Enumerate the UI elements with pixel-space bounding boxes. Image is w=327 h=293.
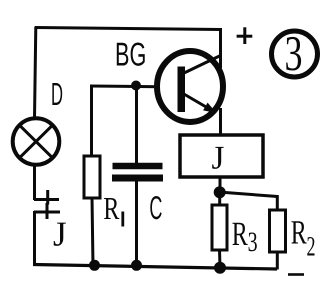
resistor R3 — [212, 205, 227, 250]
svg-text:J: J — [53, 215, 67, 254]
node bottom R3 — [214, 262, 226, 274]
node bottom R1 — [89, 260, 100, 271]
wire R2 to bottom — [276, 252, 279, 270]
transistor BG — [157, 51, 223, 122]
wire coil to node — [219, 177, 222, 193]
minus sign — [288, 273, 304, 276]
resistor R2 — [270, 210, 286, 252]
wire node to R2 branch — [222, 192, 278, 196]
svg-text:2: 2 — [307, 232, 316, 263]
wire bottom rail — [33, 265, 277, 270]
wire contact to bottom rail — [33, 211, 36, 266]
wire R1 to bottom — [92, 197, 93, 266]
lamp D — [13, 118, 60, 165]
wire R2 drop — [276, 195, 279, 211]
wire node to R3 — [218, 192, 221, 206]
wire lamp to contact — [33, 164, 36, 200]
node below coil — [214, 186, 226, 198]
wire C drop — [135, 84, 138, 164]
capacitor C — [112, 166, 163, 178]
svg-text:D: D — [51, 76, 63, 112]
relay contact J plates — [34, 190, 60, 219]
wire left rail upper — [35, 27, 36, 120]
svg-text:3: 3 — [248, 227, 258, 258]
label R2 — [291, 215, 316, 263]
resistor R1 — [84, 156, 100, 198]
wire collector vertical — [219, 28, 222, 68]
svg-text:J: J — [212, 140, 225, 176]
figure number badge circle — [272, 31, 318, 77]
svg-text:BG: BG — [115, 35, 146, 72]
wire emitter vertical — [219, 108, 222, 138]
svg-text:R: R — [291, 215, 307, 252]
svg-text:R: R — [103, 190, 119, 226]
wire R3 to bottom — [218, 250, 222, 269]
label R1 — [103, 190, 122, 227]
relay coil box J — [180, 135, 263, 177]
wire top rail — [35, 28, 221, 30]
plus sign — [237, 27, 253, 44]
wire base horizontal — [91, 86, 180, 87]
node base junction — [131, 81, 141, 91]
label R3 — [232, 216, 258, 258]
svg-text:3: 3 — [285, 25, 303, 81]
svg-text:R: R — [232, 216, 248, 253]
svg-text:C: C — [149, 189, 162, 226]
node bottom C — [131, 260, 142, 271]
wire C to bottom — [135, 180, 138, 266]
wire R1 drop — [90, 85, 93, 158]
